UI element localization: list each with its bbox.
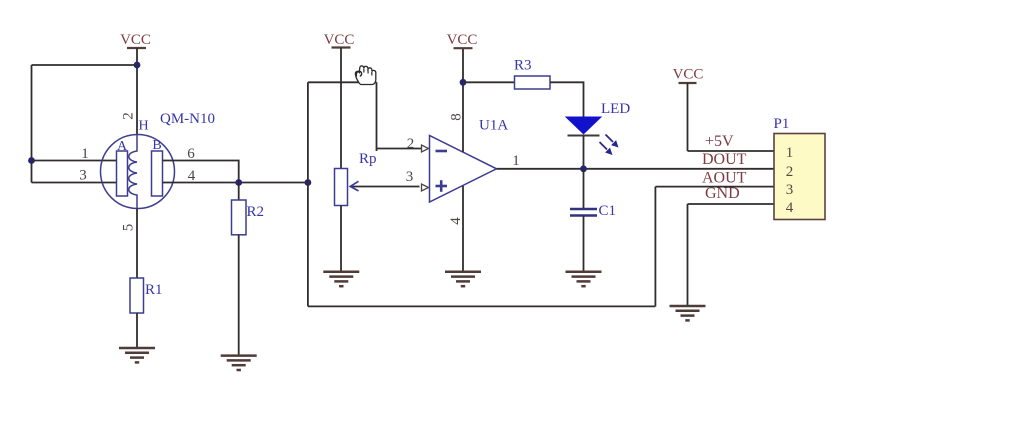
wire LED cathode down (583, 136, 585, 169)
svg-text:VCC: VCC (673, 67, 704, 83)
wire wiper to pin 3 of U1A (350, 181, 419, 191)
junction (134, 62, 141, 69)
svg-text:GND: GND (705, 185, 740, 202)
svg-text:Rp: Rp (359, 151, 377, 167)
power symbol VCC (U1A supply) (447, 32, 478, 48)
LED (566, 101, 630, 155)
wire R1 bottom (136, 313, 138, 348)
wire to C1 (583, 169, 585, 209)
electrode B (152, 138, 163, 196)
resistor R2 (232, 200, 265, 235)
svg-text:4: 4 (786, 200, 794, 216)
svg-text:P1: P1 (774, 116, 790, 132)
svg-text:H: H (139, 119, 149, 134)
svg-text:2: 2 (786, 164, 794, 180)
wire pin 5 (136, 209, 138, 279)
wire to R3 (463, 81, 515, 83)
junction (460, 79, 467, 86)
svg-text:U1A: U1A (479, 118, 508, 134)
junction (235, 179, 242, 186)
wire pin 3 (32, 182, 117, 184)
svg-text:C1: C1 (599, 203, 617, 219)
svg-text:2: 2 (121, 112, 137, 120)
wire VCC to Rp (340, 48, 342, 169)
wire inverting drop (376, 82, 378, 151)
svg-text:5: 5 (120, 224, 136, 232)
svg-text:3: 3 (79, 168, 87, 184)
svg-text:3: 3 (406, 169, 414, 185)
wire output pin 1 of U1A to DOUT (497, 168, 775, 170)
resistor R3 (514, 58, 550, 90)
wire Rp bottom (340, 206, 342, 272)
wire top horizontal (32, 64, 138, 66)
wire R2 top (238, 183, 240, 201)
svg-text:3: 3 (786, 182, 794, 198)
wire GND vertical (687, 204, 689, 306)
connector P1 (774, 116, 826, 220)
svg-text:1: 1 (512, 153, 520, 169)
wire AOUT bottom run (308, 305, 656, 307)
ground (C1) (566, 272, 602, 286)
ground (R2) (221, 356, 257, 370)
svg-text:+5V: +5V (705, 133, 734, 150)
power symbol VCC (P1 supply) (673, 67, 704, 84)
svg-text:AOUT: AOUT (702, 170, 747, 187)
svg-text:1: 1 (81, 146, 89, 162)
svg-text:VCC: VCC (324, 32, 355, 48)
gas sensor QM-N10 body (101, 135, 175, 209)
wire pin 2 of U1A (377, 148, 422, 150)
svg-text:QM-N10: QM-N10 (160, 111, 215, 127)
electrode A (117, 139, 128, 196)
op-amp U1A (422, 118, 509, 203)
svg-text:DOUT: DOUT (702, 151, 747, 168)
wire left vertical (31, 65, 33, 183)
svg-text:LED: LED (601, 101, 630, 117)
wire pin 6 (163, 161, 239, 183)
wire pin 8 of U1A (462, 48, 464, 152)
wire +5V net (688, 150, 775, 152)
wire R2 bottom (238, 235, 240, 356)
junction (28, 157, 35, 164)
capacitor C1 (570, 203, 616, 219)
junction (580, 165, 587, 172)
heater coil H (129, 119, 149, 209)
wire node vertical (307, 82, 309, 306)
wire AOUT vertical (654, 187, 656, 307)
wire VCC to +5V (687, 83, 689, 151)
ground (GND net) (670, 306, 706, 320)
svg-text:R2: R2 (247, 204, 265, 220)
wire AOUT net (655, 186, 774, 188)
wire pin 4 of U1A (462, 186, 464, 272)
svg-text:4: 4 (448, 217, 464, 225)
svg-text:R3: R3 (514, 58, 532, 74)
wire R3 to LED (550, 82, 584, 116)
svg-text:2: 2 (407, 136, 415, 152)
svg-text:A: A (117, 139, 128, 154)
wire GND net (688, 203, 775, 205)
svg-text:R1: R1 (145, 282, 163, 298)
wire VCC to sensor pin 2 (136, 48, 138, 135)
svg-text:VCC: VCC (447, 32, 478, 48)
resistor R1 (130, 278, 163, 313)
ground (Rp) (323, 272, 359, 286)
hand cursor (355, 66, 375, 85)
svg-text:VCC: VCC (120, 32, 151, 48)
svg-text:1: 1 (786, 145, 794, 161)
svg-text:B: B (152, 138, 161, 153)
power symbol VCC (Rp supply) (324, 32, 355, 48)
ground (U1A) (445, 272, 481, 286)
wire pin 4 (163, 182, 308, 184)
junction (sensor output node) (305, 179, 312, 186)
power symbol VCC (sensor supply) (120, 32, 151, 48)
wire C1 bottom (583, 216, 585, 272)
potentiometer Rp (335, 151, 377, 206)
wire pin 1 (32, 160, 117, 162)
ground (R1) (119, 348, 155, 362)
wire to inverting input top (308, 81, 377, 83)
